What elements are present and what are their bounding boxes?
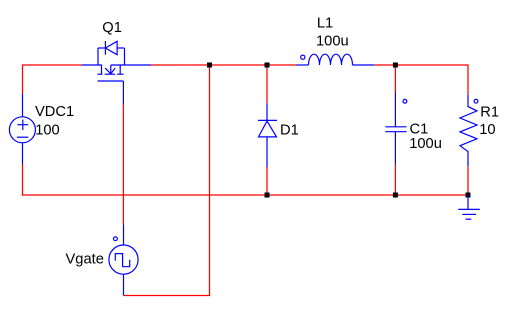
- wire C1 bottom stub: [394, 165, 396, 196]
- wire gate-return bottom horizontal: [124, 295, 211, 297]
- wire top-left horizontal (VDC1+ to Q1 drain lead): [23, 64, 82, 66]
- wire left vertical upper (VDC1 top): [22, 64, 24, 94]
- resistor R1: [460, 95, 477, 167]
- Vgate polarity dot: [114, 237, 118, 241]
- svg-text:Q1: Q1: [102, 20, 122, 36]
- label R1 value 10: [479, 122, 495, 138]
- label C1: [410, 122, 429, 138]
- wire D1 bottom stub: [266, 167, 268, 195]
- junction dot R1 bottom / ground: [466, 193, 471, 198]
- label L1: [317, 15, 333, 31]
- svg-text:10: 10: [479, 122, 495, 138]
- pulse source Vgate: [109, 225, 138, 296]
- wire D1 top stub: [266, 65, 268, 103]
- label VDC1: [35, 104, 74, 120]
- label C1 value 100u: [409, 136, 442, 152]
- wire C1 top stub: [394, 65, 396, 92]
- wire Q1 source to switch node and down to gate return: [151, 65, 296, 296]
- svg-text:Vgate: Vgate: [66, 251, 104, 267]
- junction dot D1 top: [265, 63, 270, 68]
- transistor Q1 (NMOS with body diode): [82, 41, 151, 104]
- junction dot D1 bottom: [265, 193, 270, 198]
- label Q1: [102, 20, 122, 36]
- junction dot C1 top: [393, 63, 398, 68]
- junction dot C1 bottom: [393, 193, 398, 198]
- wire Q1 gate vertical to Vgate: [122, 104, 124, 224]
- label D1: [280, 123, 299, 139]
- svg-text:100: 100: [35, 123, 60, 139]
- L1 polarity dot: [301, 55, 305, 59]
- wire R1 top stub: [467, 64, 469, 94]
- label R1: [480, 105, 499, 121]
- ground: [458, 195, 480, 219]
- svg-text:R1: R1: [480, 105, 499, 121]
- svg-text:100u: 100u: [409, 136, 442, 152]
- svg-text:100u: 100u: [316, 33, 349, 49]
- capacitor C1: [385, 92, 406, 164]
- junction dot switch node: [207, 63, 212, 68]
- label L1 value 100u: [316, 33, 349, 49]
- wire bottom horizontal (ground rail): [22, 194, 468, 196]
- svg-text:L1: L1: [317, 15, 333, 31]
- diode D1: [258, 103, 277, 167]
- wire R1 bottom stub: [467, 166, 469, 195]
- R1 polarity dot: [474, 99, 478, 103]
- C1 polarity dot: [403, 99, 407, 103]
- svg-text:VDC1: VDC1: [35, 104, 74, 120]
- inductor L1: [296, 54, 374, 65]
- label VDC1 value 100: [35, 123, 60, 139]
- voltage source VDC1: [9, 94, 35, 164]
- wire L1 right to R1 top: [374, 64, 468, 66]
- svg-text:D1: D1: [280, 123, 299, 139]
- label Vgate: [66, 251, 104, 267]
- wire left vertical lower (VDC1 bottom): [22, 165, 24, 196]
